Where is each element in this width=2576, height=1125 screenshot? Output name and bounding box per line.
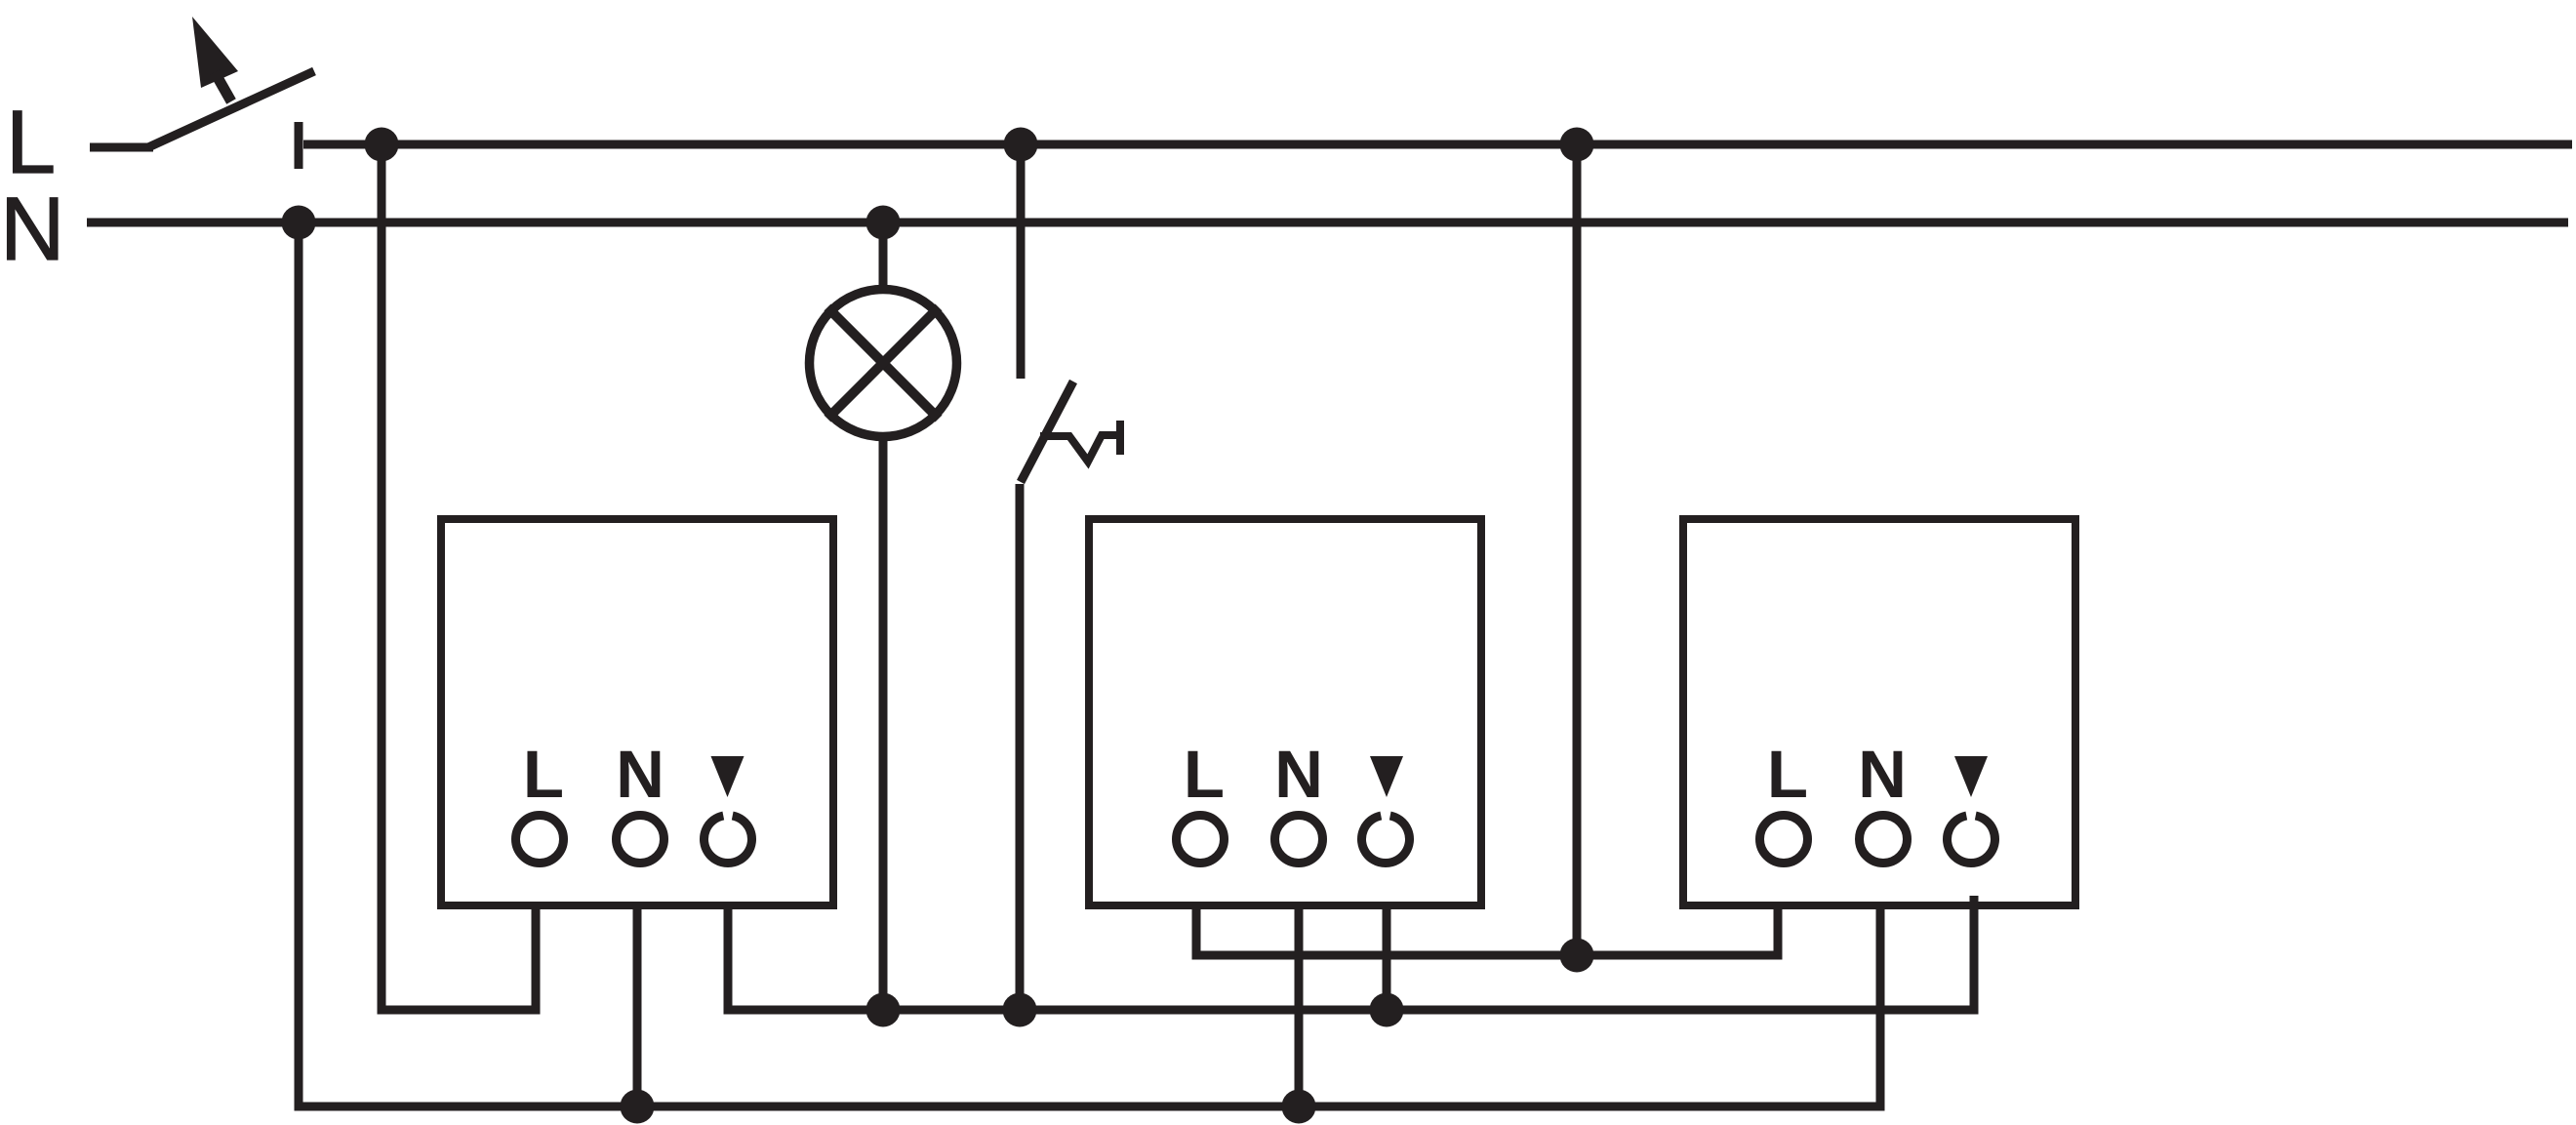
- wire U2 arrow lead: [1383, 905, 1391, 1010]
- svg-text:N: N: [1274, 737, 1323, 812]
- node L1 junction: [365, 128, 399, 162]
- wire load bus (U1 arrow to U3 arrow): [728, 896, 1974, 1010]
- U2 terminal N: [1275, 816, 1323, 864]
- switch S1 fixed contact bar: [295, 122, 303, 169]
- wire L feed stub: [90, 143, 153, 152]
- svg-text:N: N: [0, 180, 64, 279]
- dimmer U2 box: [1089, 519, 1481, 905]
- U2 terminal arrow (gapped ring): [1362, 816, 1410, 864]
- wire pushbutton bottom lead: [1016, 484, 1025, 1010]
- svg-text:L: L: [1767, 737, 1808, 812]
- U3 terminal L: [1760, 816, 1808, 864]
- wire U3 arrow lead stub: [1970, 896, 1979, 907]
- wire N rail: [87, 219, 2568, 227]
- wire U2 N lead: [1295, 905, 1304, 1106]
- U1 terminal N: [617, 816, 664, 864]
- svg-text:L: L: [1184, 737, 1225, 812]
- wire L rail: [303, 141, 2572, 149]
- lamp E1: [810, 290, 957, 437]
- svg-text:N: N: [616, 737, 664, 812]
- node N2 junction: [866, 206, 901, 240]
- switch S1 cursor arrow: [192, 17, 238, 101]
- U3 pin label arrow: [1954, 756, 1988, 797]
- node load bus lamp junction: [866, 993, 901, 1027]
- switch S1 blade: [148, 71, 314, 147]
- svg-text:L: L: [6, 93, 56, 192]
- node N1 junction: [282, 206, 316, 240]
- dimmer U1 box: [441, 519, 833, 905]
- node N bus junction U1: [621, 1090, 655, 1124]
- svg-text:N: N: [1858, 737, 1907, 812]
- wire pushbutton top lead: [1017, 144, 1026, 379]
- wire U3 L lead: [1774, 905, 1783, 951]
- wire N1 down-left riser to bottom N bus: [299, 222, 1880, 1106]
- U1 terminal L: [516, 816, 564, 864]
- pushbutton S2: [1021, 382, 1120, 482]
- U1 terminal arrow (gapped ring): [704, 816, 751, 864]
- node load bus U2 junction: [1370, 993, 1404, 1027]
- wire L bus (U2 L to U3 L): [1196, 905, 1778, 955]
- U2 terminal L: [1177, 816, 1225, 864]
- node L2 junction: [1004, 128, 1038, 162]
- wire L1 riser to U1 L terminal: [382, 144, 536, 1010]
- node L3 junction: [1560, 128, 1594, 162]
- node L bus junction: [1560, 939, 1594, 973]
- U3 terminal arrow (gapped ring): [1947, 816, 1994, 864]
- node N bus junction U2: [1282, 1090, 1316, 1124]
- svg-text:L: L: [523, 737, 564, 812]
- wire lamp top lead: [879, 222, 888, 290]
- U3 terminal N: [1860, 816, 1908, 864]
- wire lamp bottom lead: [879, 437, 888, 1010]
- U1 pin label arrow: [711, 756, 745, 797]
- node load bus pushbutton junction: [1003, 993, 1037, 1027]
- U2 pin label arrow: [1370, 756, 1403, 797]
- dimmer U3 box: [1683, 519, 2075, 905]
- wire L3 riser to L bus: [1573, 144, 1582, 955]
- wire U1 N lead: [633, 905, 642, 1106]
